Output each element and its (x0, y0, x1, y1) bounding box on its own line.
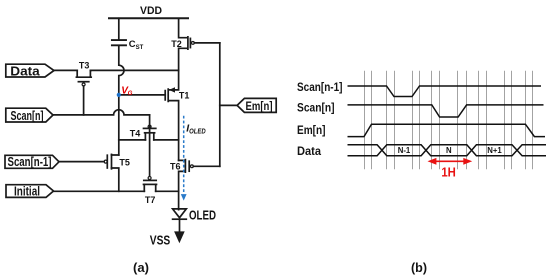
svg-text:OLED: OLED (189, 207, 216, 222)
wire T7 to main column (156, 190, 179, 192)
svg-text:N-1: N-1 (398, 146, 411, 155)
svg-text:Scan[n-1]: Scan[n-1] (297, 82, 343, 94)
svg-text:Data: Data (297, 146, 322, 158)
wire VG to T5 top (vertical) (118, 95, 120, 155)
wire T3 to main column (90, 69, 178, 71)
wire VG branch to T4 (119, 139, 146, 141)
transistor T3 (76, 70, 91, 77)
transistor T5 (104, 160, 107, 163)
svg-text:T1: T1 (179, 91, 190, 101)
svg-text:Em[n]: Em[n] (297, 125, 326, 137)
transistor T2 (179, 18, 188, 70)
waveform Data bus line B (348, 145, 547, 156)
transistor T1 (168, 70, 178, 160)
transistor T4 (148, 125, 151, 128)
svg-text:N: N (446, 146, 452, 155)
svg-text:T4: T4 (130, 128, 141, 138)
svg-text:T6: T6 (170, 162, 181, 172)
wire Scan[n] down to T4/T7 gates (149, 115, 151, 177)
T1 source arrow (169, 87, 175, 92)
transistor T6 (179, 160, 186, 210)
wire Data tag to T3 (54, 69, 77, 71)
grid lines (365, 71, 533, 170)
svg-text:T3: T3 (79, 61, 90, 71)
input tag Initial (6, 185, 54, 198)
wire Scan[n] with hop over VG wire (53, 110, 150, 115)
svg-text:VSS: VSS (150, 233, 171, 248)
svg-text:1H: 1H (441, 164, 456, 179)
input tag Scan[n-1] (5, 155, 59, 168)
svg-text:Scan[n]: Scan[n] (11, 109, 44, 123)
svg-text:N+1: N+1 (487, 146, 502, 155)
input tag Scan[n] (6, 108, 53, 122)
svg-text:T2: T2 (171, 39, 182, 49)
wire Scan[n-1] tag to T5 gate (59, 161, 104, 163)
1H arrow (433, 160, 467, 162)
svg-text:Data: Data (10, 64, 41, 78)
wire Em tag (220, 104, 237, 106)
svg-text:T7: T7 (145, 195, 156, 205)
I_OLED dashed arrow (183, 116, 185, 194)
svg-text:VDD: VDD (140, 5, 162, 17)
wire T4 to main column (154, 139, 179, 141)
svg-text:Scan[n]: Scan[n] (297, 102, 335, 114)
wire C_ST down with hop over data line (119, 46, 124, 95)
output tag Em[n] (237, 98, 276, 112)
capacitor C_ST (112, 39, 126, 41)
svg-text:Initial: Initial (14, 184, 40, 198)
waveform Data bus line A (348, 145, 547, 156)
wire Em vertical (219, 43, 221, 166)
OLED diode (173, 209, 187, 218)
svg-text:Em[n]: Em[n] (246, 99, 273, 113)
wire VDD to C_ST (118, 18, 120, 39)
svg-text:(a): (a) (133, 260, 149, 275)
waveform Em[n] (348, 124, 546, 136)
svg-text:Scan[n-1]: Scan[n-1] (8, 155, 52, 169)
VDD rail (109, 17, 188, 19)
waveform Scan[n-1] (348, 86, 542, 97)
waveform Scan[n] (348, 105, 544, 117)
transistor T7 (148, 177, 151, 180)
wire Initial tag to T7 (54, 190, 145, 192)
node VG dot (117, 93, 121, 97)
svg-text:T5: T5 (119, 158, 130, 168)
svg-text:(b): (b) (411, 260, 427, 275)
input tag Data (5, 64, 276, 197)
VSS arrow (174, 231, 185, 243)
